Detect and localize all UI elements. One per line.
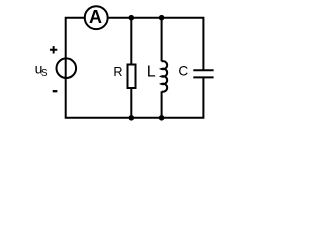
svg-text:C: C: [178, 63, 188, 78]
svg-text:L: L: [147, 64, 156, 81]
svg-text:R: R: [113, 65, 122, 79]
svg-text:A: A: [89, 7, 102, 27]
svg-text:S: S: [41, 68, 48, 79]
